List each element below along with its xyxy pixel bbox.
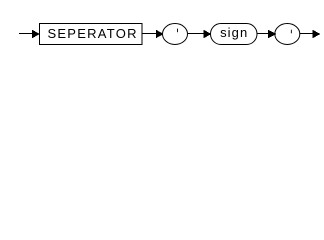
apostrophe in quote2 bbox=[290, 30, 293, 34]
terminal oval sign bbox=[211, 24, 258, 45]
exit arrowhead bbox=[313, 30, 321, 39]
entry arrowhead bbox=[32, 30, 40, 39]
wire box to quote1 bbox=[143, 33, 158, 35]
terminal circle quote1 bbox=[163, 24, 188, 45]
wire quote1 to sign bbox=[188, 33, 205, 35]
svg-text:SEPERATOR: SEPERATOR bbox=[47, 26, 137, 41]
arrowhead to quote2 bbox=[268, 30, 276, 39]
entry wire bbox=[19, 33, 33, 35]
nonterminal box SEPERATOR bbox=[40, 24, 143, 45]
terminal circle quote2 bbox=[275, 24, 300, 45]
svg-text:sign: sign bbox=[220, 25, 248, 40]
exit wire bbox=[300, 33, 314, 35]
wire sign to quote2 bbox=[258, 33, 270, 35]
arrowhead to quote1 bbox=[156, 30, 164, 39]
arrowhead to sign bbox=[204, 30, 212, 39]
apostrophe in quote1 bbox=[176, 29, 179, 33]
